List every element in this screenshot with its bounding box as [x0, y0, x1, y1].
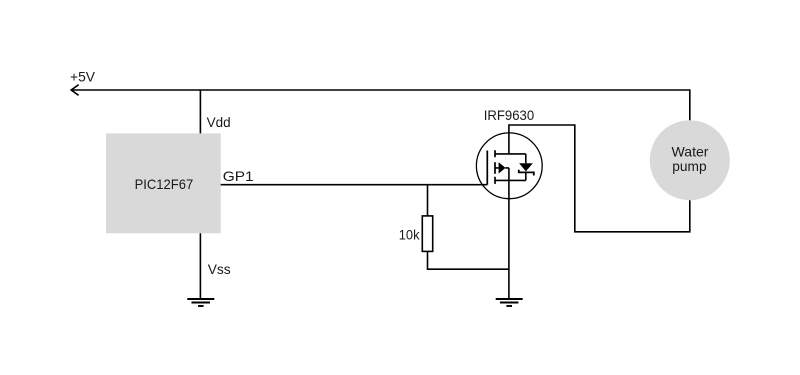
wire source lead down to ground [508, 180, 510, 298]
svg-text:pump: pump [672, 158, 706, 174]
transistor Q1 channel segment top [494, 150, 496, 157]
wire Vss pin [199, 233, 201, 298]
transistor Q1 source arrow head [499, 162, 506, 173]
svg-text:Water: Water [672, 144, 709, 160]
wire Vdd pin [199, 90, 201, 133]
wire +5V supply rail to water pump top [71, 90, 689, 120]
svg-text:Vss: Vss [208, 261, 231, 277]
transistor Q1 drain top rail [495, 153, 526, 155]
wire gate pull-up branch down from GP1 to resistor [427, 185, 429, 216]
svg-text:10k: 10k [399, 226, 421, 242]
node +5V rail arrow head [71, 85, 78, 96]
diode D1 zener cathode bar [519, 170, 534, 176]
transistor Q1 channel segment bottom [494, 177, 496, 184]
wire GP1 to gate [221, 184, 488, 186]
diode D1 cathode lead [525, 172, 527, 180]
transistor Q1 gate bar [486, 151, 488, 185]
svg-text:PIC12F67: PIC12F67 [135, 176, 194, 192]
motor M1 water pump body [650, 120, 730, 200]
transistor Q1 envelope circle [476, 133, 542, 199]
svg-text:+5V: +5V [70, 68, 96, 84]
wire source middle to bottom rail [508, 168, 510, 181]
ground GND1 under PIC [187, 299, 214, 306]
wire resistor bottom to MOSFET source line [428, 251, 509, 269]
ground GND2 under MOSFET [496, 299, 523, 306]
transistor Q1 source arrow stub [495, 167, 509, 169]
diode D1 body diode anode lead [525, 154, 527, 163]
transistor Q1 source bottom rail [495, 179, 526, 181]
diode D1 triangle [519, 163, 533, 171]
wire drain lead up and over to water pump bottom [509, 125, 690, 232]
svg-text:GP1: GP1 [223, 168, 254, 184]
svg-text:IRF9630: IRF9630 [484, 107, 535, 123]
svg-text:Vdd: Vdd [207, 114, 231, 130]
resistor R1 body [422, 216, 432, 252]
IC U1 PIC12F67 body [106, 133, 221, 233]
transistor Q1 channel segment middle [494, 162, 496, 174]
